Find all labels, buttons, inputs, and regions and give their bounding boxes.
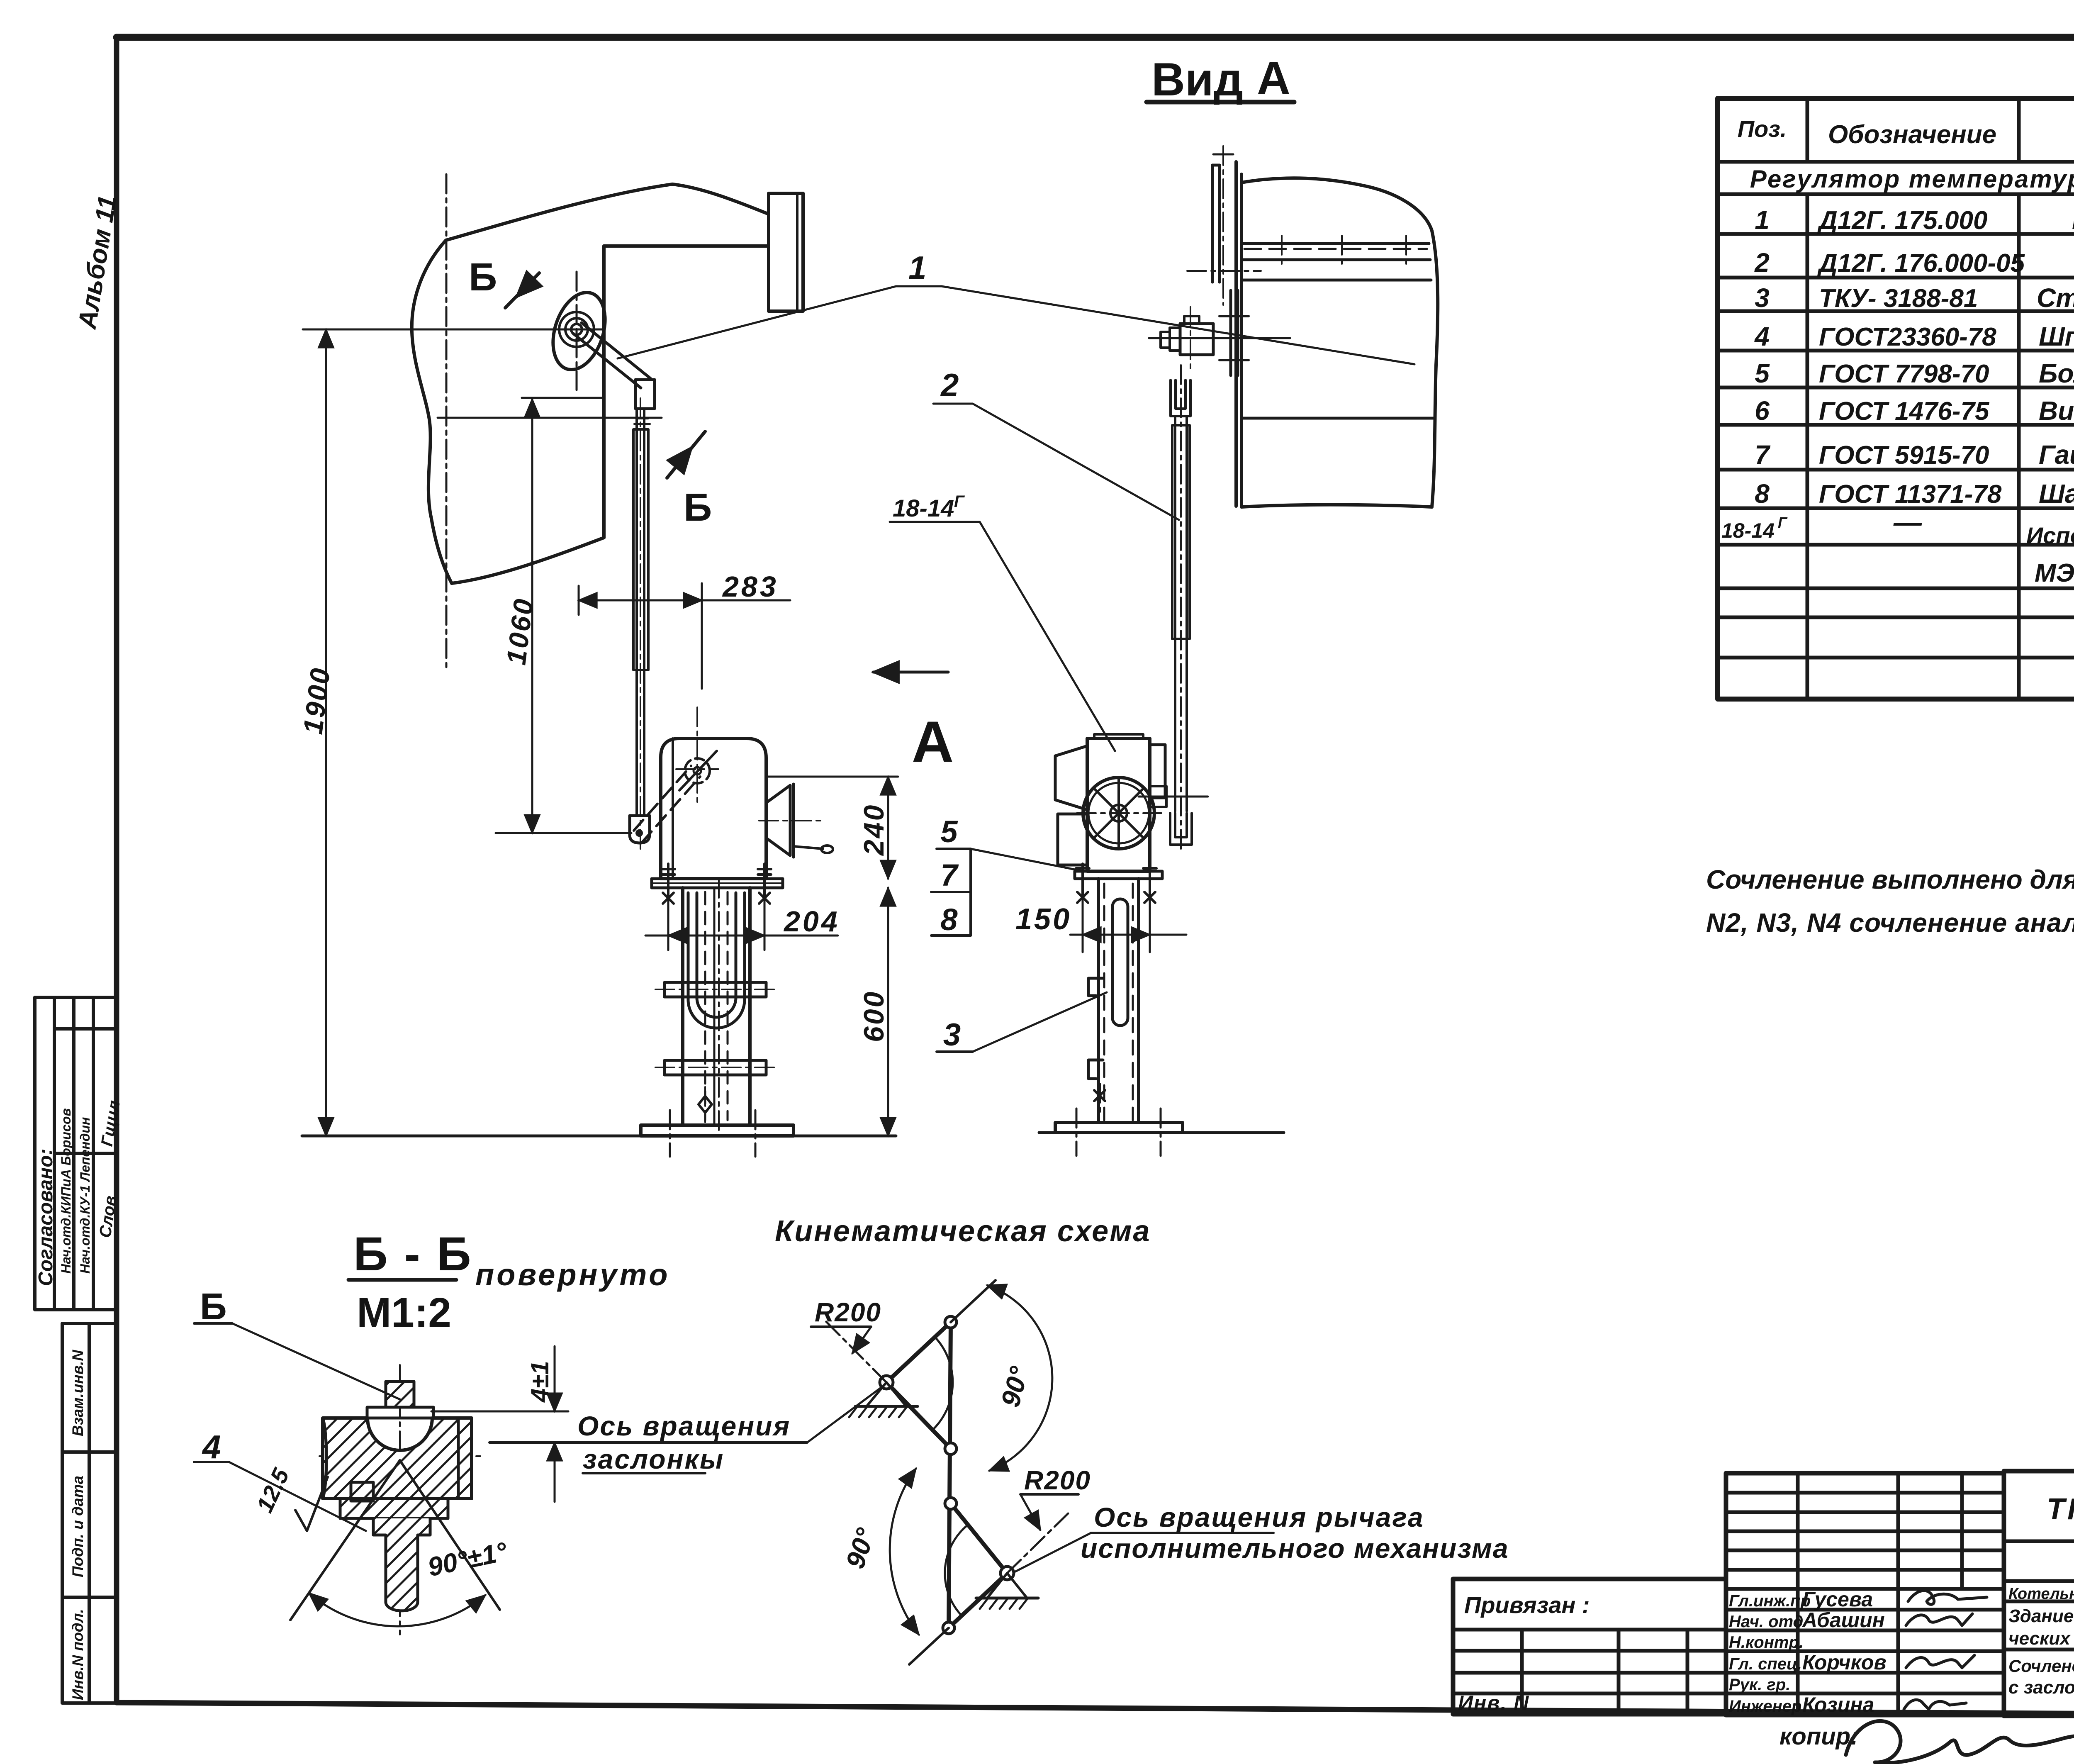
svg-text:1060: 1060 [500,596,539,667]
svg-text:Абашин: Абашин [1801,1608,1885,1632]
svg-text:2: 2 [940,367,959,403]
svg-text:повернуто: повернуто [475,1257,670,1292]
svg-text:ГОСТ 11371-78: ГОСТ 11371-78 [1819,480,2002,509]
svg-text:3: 3 [1755,283,1770,313]
svg-text:ГОСТ 7798-70: ГОСТ 7798-70 [1819,360,1989,388]
svg-text:Н.контр.: Н.контр. [1729,1633,1804,1652]
svg-text:Гусева: Гусева [1802,1588,1873,1611]
svg-text:1: 1 [1755,205,1770,235]
svg-text:Винт М12х20.36: Винт М12х20.36 [2039,396,2074,426]
svg-text:ГОСТ 5915-70: ГОСТ 5915-70 [1819,441,1989,470]
svg-text:204: 204 [783,905,840,938]
svg-text:ТП903-1-244.87: ТП903-1-244.87 [2047,1493,2074,1526]
svg-text:Ось вращения рычага: Ось вращения рычага [1094,1502,1424,1533]
svg-text:90°: 90° [840,1525,881,1572]
svg-text:СочленениеМЭО-250/25-0,25Р: СочленениеМЭО-250/25-0,25Р [2008,1656,2074,1676]
svg-text:Привязан :: Привязан : [1464,1592,1590,1618]
svg-text:ГОСТ23360-78: ГОСТ23360-78 [1819,323,1996,351]
svg-text:Гщил: Гщил [98,1099,124,1148]
svg-text:Болт М12х55.36: Болт М12х55.36 [2039,358,2074,388]
svg-text:Взам.инв.N: Взам.инв.N [69,1350,86,1436]
svg-text:Инв.N подл.: Инв.N подл. [69,1609,86,1700]
svg-text:—: — [1893,507,1922,538]
svg-text:заслонкы: заслонкы [583,1444,724,1474]
svg-text:Г: Г [1778,514,1788,531]
svg-text:Гайка М12.4: Гайка М12.4 [2039,440,2074,470]
svg-text:Шайба 12.01: Шайба 12.01 [2039,479,2074,509]
svg-text:ТКУ- 3188-81: ТКУ- 3188-81 [1819,284,1978,313]
svg-text:R200: R200 [1024,1465,1091,1495]
svg-text:1900: 1900 [297,665,336,736]
svg-text:4: 4 [1754,322,1770,351]
svg-text:Инженер: Инженер [1729,1697,1801,1715]
svg-text:Б: Б [684,485,712,529]
svg-text:Гл. спец.: Гл. спец. [1729,1655,1802,1673]
svg-text:Нач.отд.КИПиА Борисов: Нач.отд.КИПиА Борисов [58,1108,73,1274]
svg-text:М1:2: М1:2 [357,1289,451,1336]
svg-text:Исполнительный механизм: Исполнительный механизм [2026,522,2074,548]
svg-text:Рычаг: Рычаг [2072,205,2074,235]
svg-text:МЭО-250/25- 0.25Р: МЭО-250/25- 0.25Р [2035,559,2074,587]
svg-text:Согласовано:: Согласовано: [35,1148,57,1286]
svg-text:А: А [912,709,954,774]
svg-text:Нач. отд: Нач. отд [1729,1613,1803,1631]
svg-text:Стойка СЦМ-31: Стойка СЦМ-31 [2037,283,2074,313]
svg-text:Козина: Козина [1802,1693,1874,1716]
svg-text:А: А [1257,52,1290,104]
svg-text:8: 8 [940,902,958,937]
svg-text:копир:: копир: [1779,1723,1858,1750]
svg-text:240: 240 [858,804,890,856]
svg-text:8: 8 [1755,479,1770,509]
svg-text:Сочленение выполнено для котла: Сочленение выполнено для котла N1. Для к… [1706,865,2074,894]
svg-text:5: 5 [940,814,958,849]
svg-text:18-14: 18-14 [893,495,954,522]
svg-text:Поз.: Поз. [1738,116,1787,142]
svg-text:Подп. и дата: Подп. и дата [69,1476,86,1577]
svg-text:7: 7 [940,858,959,892]
svg-text:6: 6 [1755,396,1770,426]
svg-text:Ось вращения: Ось вращения [577,1411,791,1441]
svg-text:7: 7 [1755,440,1771,470]
svg-text:Кинематическая схема: Кинематическая схема [775,1215,1151,1248]
svg-text:R200: R200 [815,1297,881,1327]
svg-text:Вид: Вид [1151,54,1243,105]
svg-text:ческих конструкций: ческих конструкций [2008,1628,2074,1649]
svg-text:Б: Б [469,255,497,299]
svg-text:Рук. гр.: Рук. гр. [1729,1676,1790,1694]
svg-text:Корчков: Корчков [1802,1651,1887,1674]
svg-text:Б: Б [200,1286,227,1328]
svg-text:Д12Г. 176.000-05: Д12Г. 176.000-05 [1817,249,2025,278]
svg-text:Здание из легких металли-: Здание из легких металли- [2008,1606,2074,1626]
svg-text:2: 2 [1754,248,1770,278]
svg-text:4: 4 [202,1428,221,1465]
svg-text:18-14: 18-14 [1721,519,1775,542]
svg-text:Инв. N: Инв. N [1458,1691,1529,1715]
svg-text:283: 283 [722,570,779,603]
svg-text:Нач.отд.КУ-1 Лепендин: Нач.отд.КУ-1 Лепендин [78,1117,93,1274]
svg-text:Гл.инж.пр: Гл.инж.пр [1729,1592,1811,1610]
svg-text:3: 3 [943,1017,961,1053]
svg-text:1: 1 [908,249,926,286]
svg-text:с заслонкой тройника: с заслонкой тройника [2008,1677,2074,1698]
svg-text:Д12Г. 175.000: Д12Г. 175.000 [1817,206,1987,235]
svg-text:4±1: 4±1 [526,1361,554,1403]
svg-text:90°: 90° [995,1363,1035,1410]
svg-text:5: 5 [1755,358,1770,388]
svg-text:Б - Б: Б - Б [353,1228,473,1281]
svg-text:90°±1°: 90°±1° [425,1536,510,1582]
svg-text:600: 600 [858,990,890,1042]
svg-text:исполнительного механизма: исполнительного механизма [1081,1533,1509,1564]
svg-text:Г: Г [954,492,965,511]
svg-text:ГОСТ 1476-75: ГОСТ 1476-75 [1819,397,1990,426]
svg-text:Котельная с 4котлами ДЕ-10-14Г: Котельная с 4котлами ДЕ-10-14ГМ [2008,1585,2074,1603]
svg-text:12.5: 12.5 [251,1464,295,1516]
svg-text:Шпонка 12х8х45: Шпонка 12х8х45 [2039,322,2074,351]
svg-text:N2, N3, N4 сочленение аналогич: N2, N3, N4 сочленение аналогично. [1706,908,2074,938]
svg-text:150: 150 [1015,903,1071,936]
svg-text:Обозначение: Обозначение [1828,120,1996,149]
svg-text:Регулятор температуры дымовых: Регулятор температуры дымовых газов [1750,165,2074,193]
